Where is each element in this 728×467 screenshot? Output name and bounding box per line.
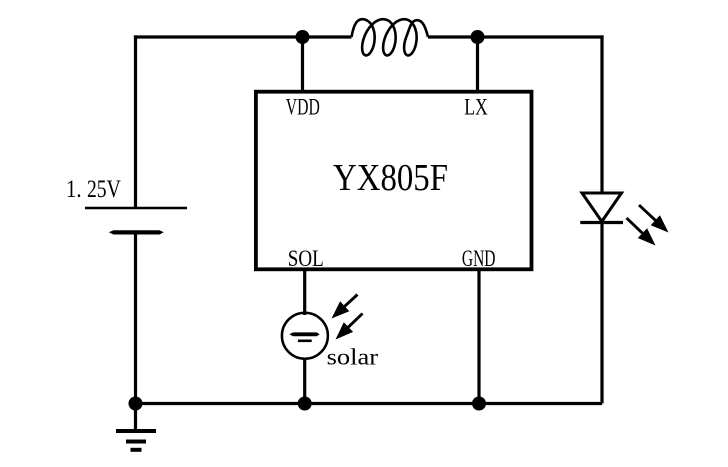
- node junction bottom SOL: [298, 397, 312, 411]
- solar cell circle: [282, 313, 328, 359]
- battery BT1 positive plate: [85, 207, 187, 210]
- wire right vertical upper (LED anode lead): [600, 35, 603, 193]
- wire bottom rail: [136, 402, 603, 405]
- battery BT1 negative plate: [109, 230, 164, 234]
- svg-text:YX805F: YX805F: [333, 157, 448, 199]
- wire right vertical lower (LED cathode lead): [600, 223, 603, 404]
- LED D1 cathode bar: [580, 221, 623, 224]
- solar cell short plate: [298, 339, 312, 342]
- node junction top-left (VDD tap): [296, 30, 310, 44]
- node junction bottom GND: [472, 397, 486, 411]
- wire left vertical lower (battery negative lead): [134, 232, 137, 403]
- wire SOL pin upper: [303, 268, 306, 315]
- IC U1 YX805F body: [256, 92, 532, 270]
- wire VDD pin: [301, 37, 304, 92]
- wire top rail left segment: [134, 35, 352, 38]
- svg-text:SOL: SOL: [288, 246, 324, 271]
- inductor L1: [352, 19, 429, 55]
- wire top rail right segment: [428, 35, 604, 38]
- ground bar 3: [131, 448, 142, 452]
- svg-text:25V: 25V: [87, 174, 121, 203]
- LED D1 triangle (anode): [582, 193, 622, 222]
- ground stem: [134, 404, 137, 432]
- svg-text:solar: solar: [327, 345, 379, 370]
- node junction bottom-left (ground tap): [129, 397, 143, 411]
- svg-text:GND: GND: [462, 246, 496, 271]
- svg-text:LX: LX: [464, 95, 488, 120]
- LED D1 emission arrow 2: [627, 218, 645, 235]
- ground bar 1: [116, 429, 156, 433]
- LED D1 emission arrow 1: [639, 205, 658, 222]
- node junction top-right (LX tap): [471, 30, 485, 44]
- solar incidence arrow 2: [346, 314, 362, 330]
- solar incidence arrow 1: [343, 295, 358, 309]
- solar cell long plate: [289, 332, 319, 336]
- wire GND pin: [477, 268, 480, 404]
- wire LX pin: [476, 37, 479, 92]
- wire left vertical upper (battery positive lead): [134, 35, 137, 208]
- ground bar 2: [126, 440, 146, 444]
- wire SOL pin lower: [303, 359, 306, 404]
- svg-text:1.: 1.: [66, 174, 82, 203]
- svg-text:VDD: VDD: [286, 95, 320, 120]
